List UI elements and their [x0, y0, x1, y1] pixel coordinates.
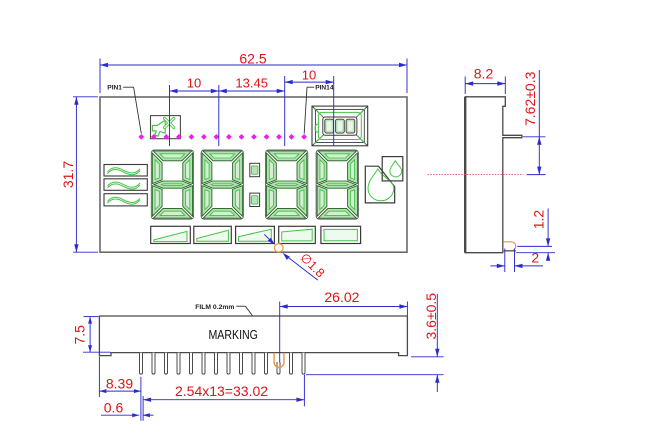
- large water drop icon: [365, 166, 394, 203]
- colon upper square: [250, 163, 260, 176]
- wave icon 2: [104, 179, 147, 191]
- bottom bar 4: [279, 226, 316, 243]
- PIN1 label: [107, 84, 141, 133]
- speaker mute icon: [151, 116, 181, 139]
- svg-text:10: 10: [302, 68, 316, 83]
- bottom view outline: [99, 316, 407, 356]
- 7-segment digit 4: [316, 150, 358, 219]
- dimensions 10 / 13.45 / 10: [170, 68, 334, 146]
- svg-text:FILM 0.2mm: FILM 0.2mm: [195, 304, 234, 311]
- front view outline: [100, 97, 407, 252]
- bottom bar 3: [236, 226, 275, 243]
- svg-text:10: 10: [187, 75, 201, 90]
- mounting hole: [275, 244, 284, 253]
- svg-text:7.62±0.3: 7.62±0.3: [522, 71, 538, 126]
- bottom view pins: [140, 353, 306, 374]
- svg-text:MARKING: MARKING: [208, 328, 258, 342]
- dia 1.8 leader: [264, 234, 327, 280]
- side view pin 12 (orange): [503, 242, 516, 251]
- pin dots row: [138, 134, 307, 140]
- small water drop icon: [382, 157, 403, 181]
- dimension 7.5: [72, 317, 111, 353]
- dimension 7.62±0.3: [522, 70, 545, 175]
- dimension 8.39: [99, 357, 140, 421]
- svg-text:3.6±0.5: 3.6±0.5: [423, 293, 439, 340]
- dimension 3.6±0.5: [306, 293, 444, 392]
- 7-segment digit 1: [151, 150, 193, 219]
- dimension 8.2: [465, 66, 505, 95]
- PIN14 label: [304, 84, 334, 133]
- svg-text:8.39: 8.39: [106, 375, 133, 391]
- dimension 2 (side): [490, 249, 543, 273]
- colon lower square: [250, 193, 260, 206]
- dimension 62.5: [100, 50, 407, 93]
- pin 12 highlighted: [274, 353, 284, 374]
- bottom bar 2: [194, 226, 232, 243]
- svg-text:26.02: 26.02: [324, 289, 359, 305]
- svg-text:31.7: 31.7: [60, 161, 76, 188]
- svg-text:7.5: 7.5: [72, 325, 88, 345]
- dimension 2.54x13=33.02: [143, 375, 304, 421]
- dimension 26.02: [280, 289, 408, 363]
- 7-segment digit 2: [201, 150, 243, 219]
- dimension 0.6: [101, 399, 154, 417]
- centerline: [428, 174, 524, 176]
- battery / small display icon: [312, 106, 368, 146]
- wave icon 3: [104, 194, 147, 206]
- svg-text:8.2: 8.2: [474, 66, 494, 82]
- svg-text:0.6: 0.6: [104, 399, 124, 415]
- dimension 1.2: [516, 209, 555, 261]
- 7-segment digit 3: [266, 150, 308, 219]
- svg-text:PIN1: PIN1: [107, 84, 122, 91]
- svg-text:62.5: 62.5: [239, 50, 266, 66]
- bottom bar 1: [151, 226, 191, 243]
- svg-text:13.45: 13.45: [235, 75, 268, 90]
- FILM 0.2mm label: [195, 304, 252, 316]
- wave icon 1: [104, 165, 147, 177]
- dimension 31.7: [60, 97, 98, 252]
- svg-text:1.2: 1.2: [531, 210, 547, 230]
- side view outline: [465, 97, 522, 253]
- svg-text:2.54x13=33.02: 2.54x13=33.02: [175, 383, 268, 399]
- svg-text:PIN14: PIN14: [315, 84, 334, 91]
- bottom bar 5: [321, 226, 361, 243]
- svg-text:2: 2: [531, 250, 539, 266]
